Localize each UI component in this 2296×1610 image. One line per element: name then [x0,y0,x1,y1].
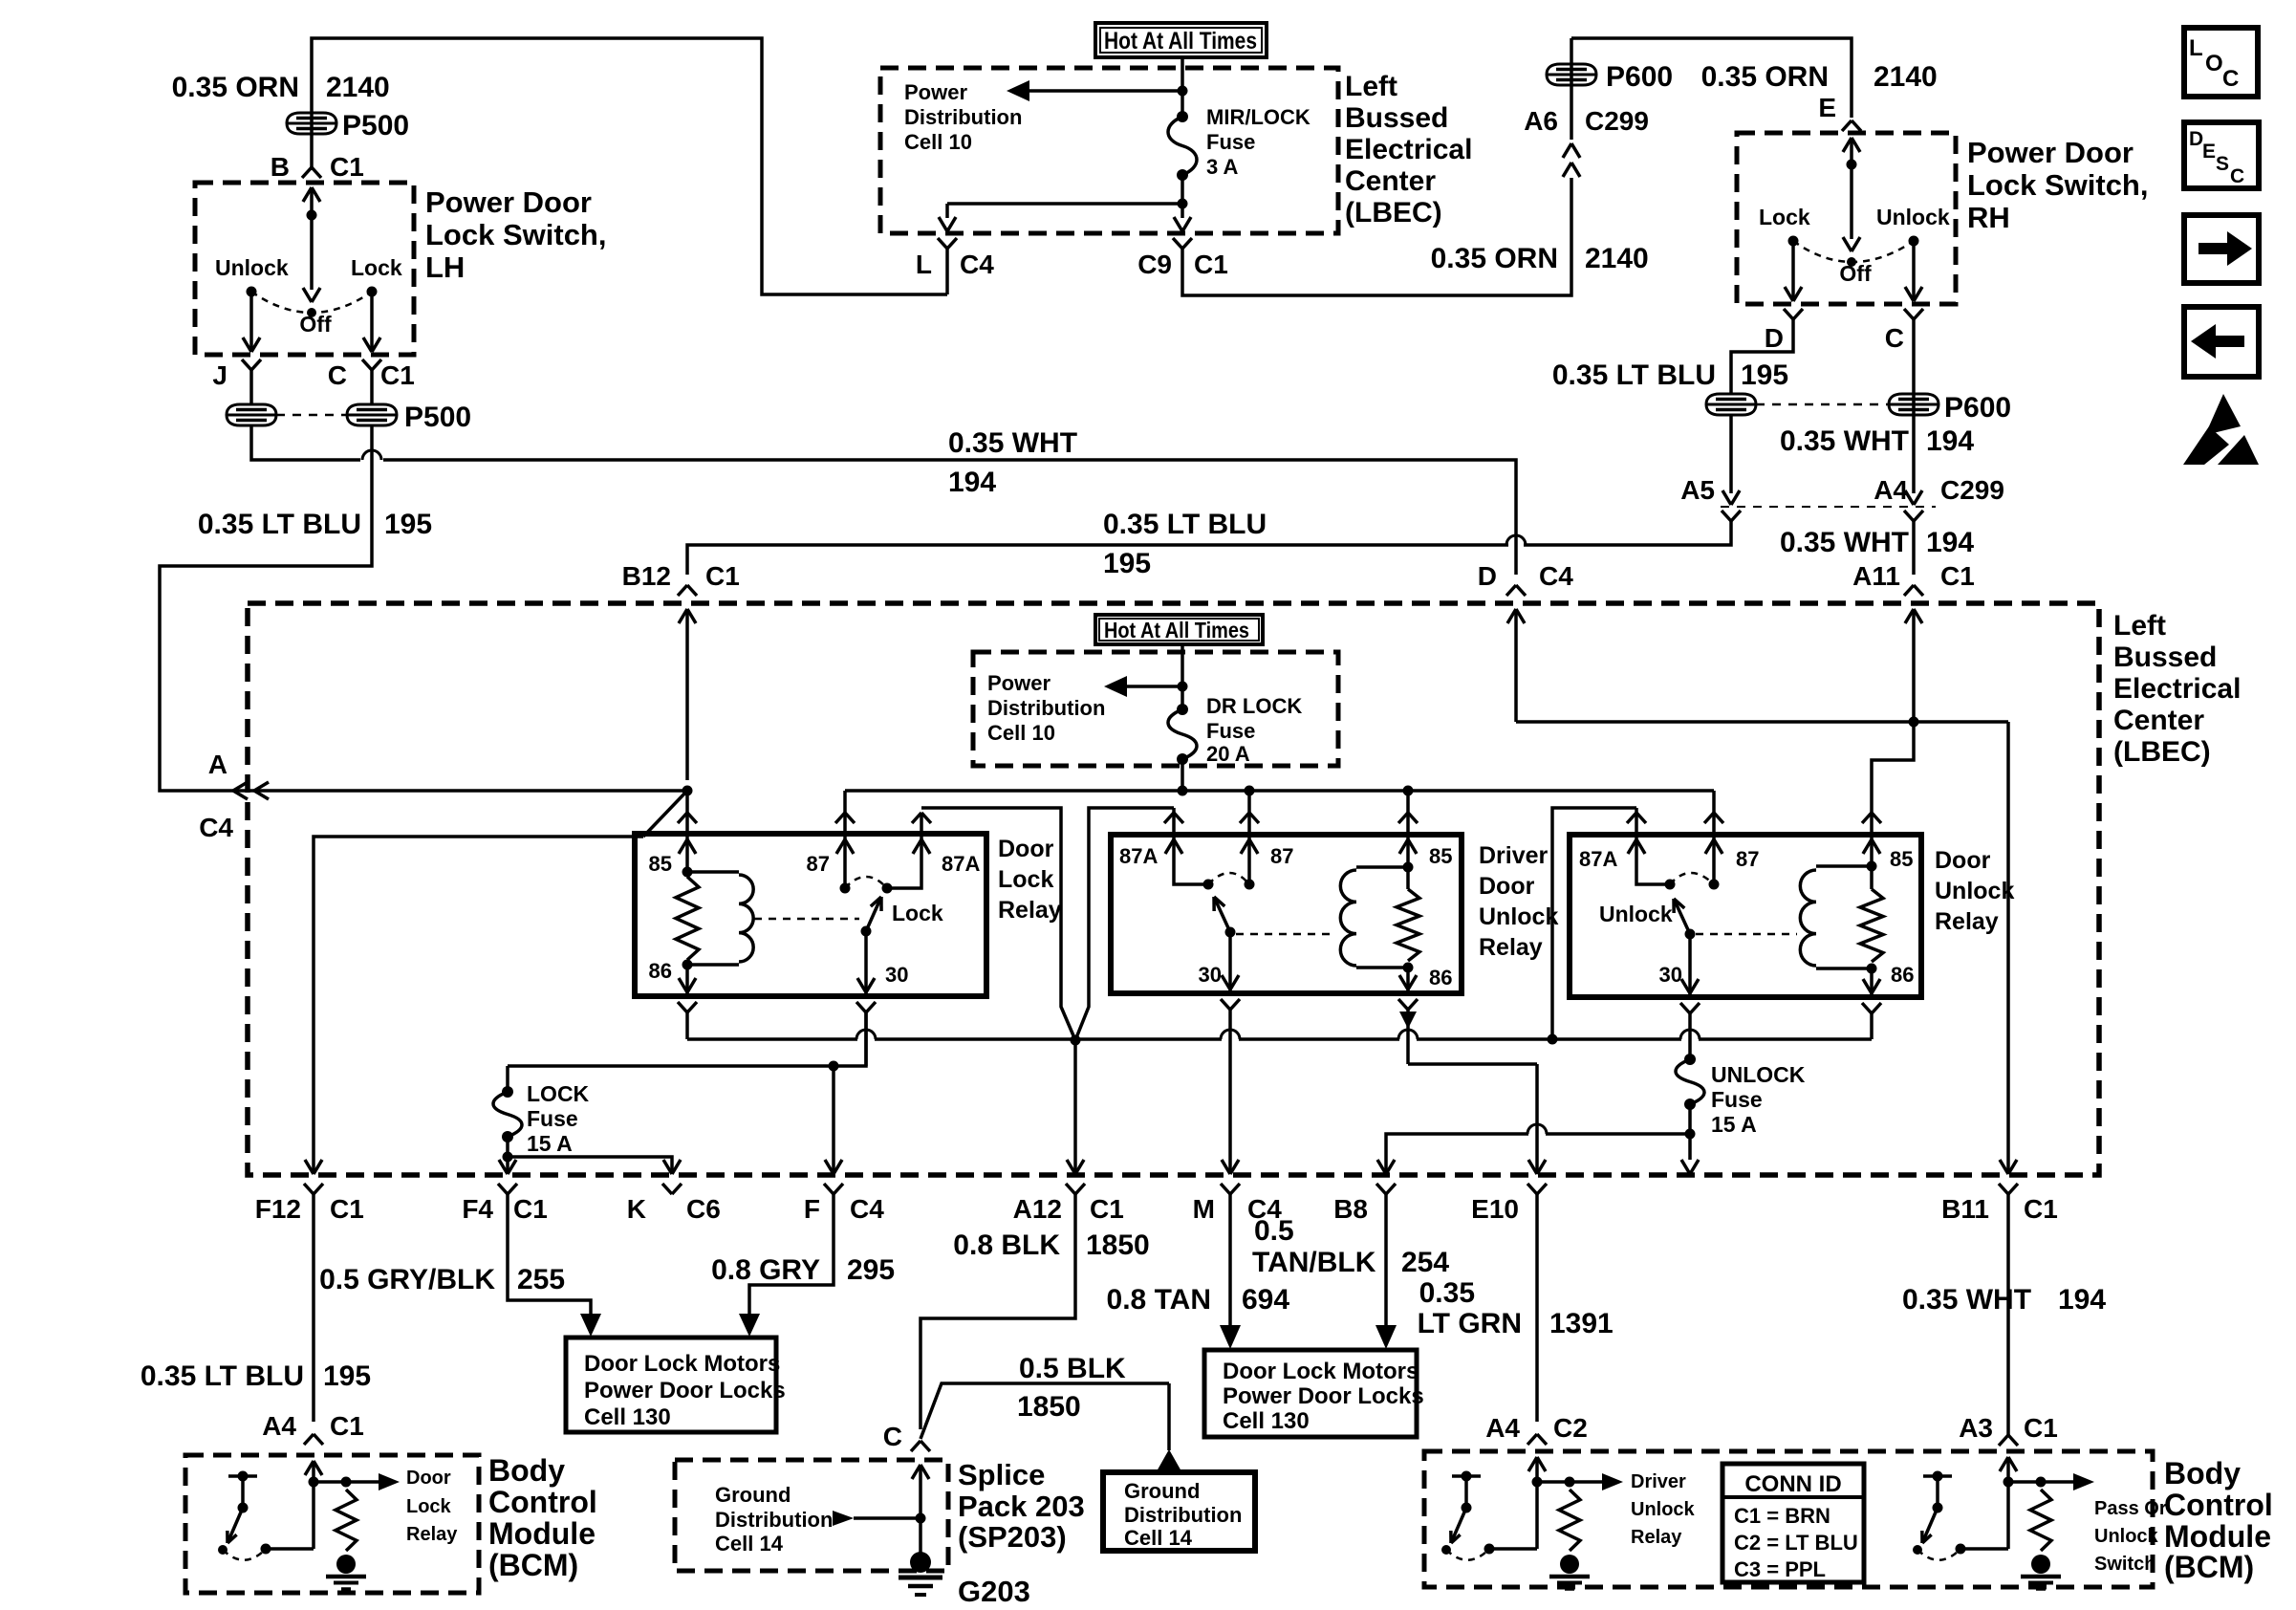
wire label 0.35 WHT 194 (J leg) [948,427,1077,498]
relay1 pin30 output fork [856,1002,876,1066]
svg-text:C4: C4 [960,250,994,279]
connector B / C1 at LH switch [271,152,364,182]
svg-text:Power Door: Power Door [425,185,592,219]
relay2 pin87 lead [1240,791,1259,890]
svg-text:C: C [328,360,347,390]
wire WHT 194 from C to A4 [1912,319,1916,493]
svg-text:30: 30 [885,963,908,987]
svg-text:0.35: 0.35 [1419,1277,1475,1309]
svg-text:Pass Or: Pass Or [2094,1498,2167,1519]
relay3 switch throw arc [1670,873,1714,884]
svg-text:A11: A11 [1852,561,1900,591]
ground distribution cell 14 box (solid) [1103,1472,1255,1551]
svg-text:Ground: Ground [715,1483,791,1507]
svg-text:C1: C1 [1940,561,1975,591]
relay3 coil resistor [1860,889,1883,974]
svg-text:Body: Body [2164,1456,2241,1490]
svg-text:Driver: Driver [1479,842,1549,869]
svg-text:Door: Door [1479,873,1535,900]
svg-text:1850: 1850 [1017,1391,1081,1423]
splice pack SP203 node [912,1465,929,1553]
svg-text:O: O [2205,51,2223,76]
legend DESC box [2184,122,2259,188]
wire WHT 194 from J to D/C4 of LBEC [251,425,1516,575]
svg-text:MIR/LOCK: MIR/LOCK [1206,105,1310,129]
splice P500 (top, circuit 2140) [287,110,409,141]
svg-text:Electrical: Electrical [2113,673,2241,705]
A5 mating fork [1722,511,1741,521]
relay2 switch arm (to 87A) [1214,897,1236,938]
LH switch Lock contact [351,255,402,297]
svg-text:Fuse: Fuse [1711,1087,1763,1112]
svg-text:Module: Module [2164,1519,2271,1554]
svg-text:Unlock: Unlock [1479,903,1558,930]
wire ORN 2140 from C9 to RH switch via A6/C299 [1182,178,1571,295]
label Power Distribution Cell 10 (top box) [904,80,1022,154]
connector A3 / C1 at BCM [1959,1413,2058,1446]
svg-text:C1: C1 [380,360,415,390]
main bus wire (A/C4 to relay coils) [229,786,693,796]
svg-text:M: M [1193,1194,1215,1224]
label Driver Unlock Relay (BCM) [1631,1471,1696,1548]
wire from fuse to outputs L and C9 [947,175,1188,218]
unlock fuse feed from relay3 30 [1676,1054,1704,1140]
svg-text:F: F [804,1194,820,1224]
wire LT GRN 1391 from E10 to BCM A4/C2 [1535,1194,1539,1422]
relay2 pin85 label [1429,844,1452,868]
svg-text:A6: A6 [1524,106,1558,136]
wire label 0.35 LT BLU 195 (BCM leg) [141,1360,371,1392]
body control module (BCM) dashed box (left) [185,1455,479,1593]
relay3 pin85 label [1890,847,1913,871]
feed wire into MIR/LOCK fuse [1180,57,1184,117]
wire label 0.35 LT BLU 195 (D leg) [1552,359,1788,391]
door lock motors box (right) [1204,1350,1424,1437]
svg-text:C6: C6 [686,1194,721,1224]
RH switch common feed arrow [1843,138,1860,170]
connector D / C4 into LBEC [1478,561,1573,722]
RH switch Unlock output wire [1905,241,1922,301]
conn id table [1722,1464,1864,1582]
relay2 coil resistor [1397,889,1419,973]
ground distribution arrow to splice [833,1511,921,1526]
wire label 0.35 ORN 2140 (LH feed) [172,72,390,103]
wire label 0.8 TAN 694 [1107,1284,1290,1316]
svg-text:Off: Off [1839,261,1872,286]
svg-text:1391: 1391 [1549,1308,1614,1339]
relay3 pin30 output fork [1680,1003,1700,1059]
power distribution fuse box (MIR/LOCK) dashed [880,68,1338,233]
svg-text:A3: A3 [1959,1413,1993,1443]
label Ground Distribution Cell 14 (dashed) [715,1483,833,1556]
wire label 0.35 LT GRN 1391 [1418,1277,1614,1339]
svg-text:Unlock: Unlock [1631,1499,1696,1520]
relay3 pin87 label [1736,847,1759,871]
svg-text:3 A: 3 A [1206,155,1239,179]
svg-text:S: S [2216,153,2229,175]
wire LT BLU 195 from D to P600 [1731,319,1793,394]
label Pass Or Unlock Switch (BCM) [2094,1498,2167,1575]
svg-text:87A: 87A [1119,844,1158,868]
svg-text:Door: Door [406,1468,451,1489]
svg-text:86: 86 [1429,966,1452,990]
label Door Lock Relay (BCM) [406,1468,458,1545]
BCM driver unlock relay unit [1441,1457,1623,1589]
svg-text:85: 85 [1429,844,1452,868]
wire GRY 295 from F to door lock motors [739,1194,834,1337]
power distribution arrow (left) top box [1007,80,1188,101]
svg-text:Lock Switch,: Lock Switch, [1967,168,2148,202]
LH switch Lock output wire [363,292,380,352]
wire WHT 194 from B11 to BCM A3 [2006,1194,2010,1435]
svg-text:L: L [2189,35,2203,61]
svg-text:Left: Left [1345,71,1397,102]
svg-text:C4: C4 [850,1194,884,1224]
legend ESD symbol [2183,394,2259,465]
svg-text:Lock Switch,: Lock Switch, [425,218,606,251]
svg-text:87: 87 [807,852,830,876]
svg-text:(LBEC): (LBEC) [2113,736,2211,768]
wire LT BLU 195 from A5 to LBEC B12 [687,521,1731,575]
relay3 label Unlock [1599,902,1673,926]
wire label 0.8 GRY 295 [711,1254,895,1286]
svg-text:0.35 ORN: 0.35 ORN [1431,243,1558,274]
connector M / C4 [1193,1160,1283,1224]
LH switch Unlock output wire [243,292,260,352]
svg-text:Splice: Splice [958,1458,1045,1491]
BCM pass or unlock switch unit [1913,1457,2094,1589]
svg-text:L: L [916,250,932,279]
svg-text:Cell 130: Cell 130 [584,1404,671,1430]
output arrow C9 (top box) [1174,217,1191,231]
wire label 0.5 BLK 1850 (ground leg) [1017,1353,1126,1423]
door lock motors box (left) [566,1338,786,1432]
svg-text:0.5 GRY/BLK: 0.5 GRY/BLK [319,1264,495,1295]
svg-text:J: J [212,360,227,390]
svg-text:F4: F4 [462,1194,493,1224]
connector F / C4 [804,1066,884,1224]
wire label 0.35 LT BLU 195 (C leg) [198,509,432,540]
wire label 0.35 ORN (RH feed) [1701,61,1938,93]
svg-text:B12: B12 [622,561,671,591]
svg-text:C1 = BRN: C1 = BRN [1734,1504,1830,1528]
relay1 switch arm (Lock) [861,897,882,937]
svg-text:E: E [1818,93,1836,122]
svg-text:0.35 WHT: 0.35 WHT [948,427,1077,459]
svg-text:Power Door Locks: Power Door Locks [584,1378,786,1403]
svg-text:295: 295 [847,1254,895,1286]
relay2 pin87A lead [1164,808,1214,890]
svg-text:Driver: Driver [1631,1471,1686,1492]
fuse LOCK 15A symbol [493,1066,834,1163]
LH switch Unlock contact [215,255,289,297]
svg-text:A5: A5 [1680,475,1715,505]
wire label 0.8 BLK 1850 [953,1229,1149,1261]
svg-text:C299: C299 [1585,106,1649,136]
svg-text:0.35 ORN: 0.35 ORN [1701,61,1829,93]
svg-text:B: B [271,152,290,182]
connector F12 / C1 [255,1160,364,1224]
splice P600 (circuit 2140) [1547,38,1673,140]
svg-text:0.35 LT BLU: 0.35 LT BLU [1103,509,1267,540]
svg-text:C4: C4 [1539,561,1573,591]
label Left Bussed Electrical Center LBEC (top) [1345,71,1472,228]
relay1 pin30 lead [857,931,875,996]
svg-text:A4: A4 [1874,475,1908,505]
svg-text:Distribution: Distribution [1124,1503,1242,1527]
svg-text:255: 255 [517,1264,565,1295]
wire from L to LH feed corner [945,249,949,294]
connector L / C4 [916,238,994,279]
label Body Control Module BCM (right) [2164,1456,2273,1584]
connector E at RH switch [1818,93,1861,131]
door unlock relay box [1570,835,1921,997]
svg-text:C: C [883,1422,902,1451]
left bussed electrical center dashed box [248,603,2099,1175]
svg-text:Cell 10: Cell 10 [987,721,1055,745]
svg-text:Relay: Relay [1935,908,1999,935]
svg-text:P600: P600 [1944,392,2011,424]
svg-text:(BCM): (BCM) [488,1548,578,1582]
svg-text:85: 85 [1890,847,1913,871]
svg-text:195: 195 [323,1360,371,1392]
wire label 0.35 WHT 194 (C leg) [1780,425,1974,457]
relay1 87A / relay2 87A merge to A12 [921,808,1174,1174]
driver door unlock relay box [1111,835,1462,993]
wire F12 to BCM A4 [312,1194,315,1422]
RH switch Lock output wire [1785,241,1802,301]
unlock fuse output arrow at LBEC edge [1681,1134,1699,1174]
svg-text:Center: Center [2113,705,2204,736]
svg-text:Lock: Lock [351,255,402,280]
svg-text:Unlock: Unlock [2094,1526,2159,1547]
svg-text:C: C [2230,165,2244,187]
svg-text:Switch: Switch [2094,1554,2155,1575]
svg-text:P500: P500 [404,402,471,433]
relay3 switch arm (Unlock) [1674,899,1696,940]
label Door Lock Relay [998,836,1062,924]
svg-text:Door Lock Motors: Door Lock Motors [584,1351,780,1377]
svg-text:Body: Body [488,1453,565,1488]
svg-text:Module: Module [488,1516,596,1551]
svg-text:2140: 2140 [1874,61,1938,93]
svg-text:694: 694 [1242,1284,1289,1316]
svg-text:87A: 87A [1579,847,1617,871]
svg-text:2140: 2140 [326,72,390,103]
wire DR LOCK fuse to bus [1180,759,1184,791]
wire label 0.35 WHT 194 (B11 leg) [1902,1284,2106,1316]
connector A4 / C2 at BCM [1485,1413,1588,1445]
svg-text:LOCK: LOCK [527,1081,590,1106]
svg-text:D: D [1478,561,1497,591]
svg-text:0.35 LT BLU: 0.35 LT BLU [1552,359,1716,391]
svg-text:Unlock: Unlock [1876,205,1950,229]
door lock relay box [635,834,986,996]
svg-text:87: 87 [1270,844,1293,868]
wire TAN/BLK 254 from B8 to door lock motors [1375,1194,1397,1349]
BCM door lock relay unit [218,1461,400,1589]
label Body Control Module BCM (left) [488,1453,597,1582]
svg-text:C1: C1 [330,1411,364,1441]
connector B8 [1333,1160,1396,1224]
svg-text:Unlock: Unlock [1935,878,2014,904]
svg-text:194: 194 [1926,527,1974,558]
relay3 coil [1800,866,1872,968]
fuse MIR/LOCK 3A symbol [1168,111,1197,181]
svg-text:Cell 130: Cell 130 [1223,1408,1310,1434]
C299 mating dashed line [1721,506,1936,508]
wire ORN to RH switch pin E [1571,38,1852,118]
connector C at splice pack [883,1422,930,1451]
relay1 coil resistor [676,877,699,970]
label Power Distribution Cell 10 (DR LOCK box) [987,671,1105,745]
relay1 pin87 label [807,852,830,876]
legend left-arrow box [2184,307,2259,377]
wire A11 to B11 and relay3 85 [1516,717,2008,1175]
bus diagonal to BCM A4 branch [314,791,687,1174]
svg-text:Off: Off [299,312,332,337]
connector A6 / C299 arrows [1524,106,1649,177]
svg-text:Distribution: Distribution [715,1508,833,1532]
relay1 pin86 lead [649,959,696,996]
svg-text:0.35 LT BLU: 0.35 LT BLU [198,509,361,540]
connector A / C4 into LBEC [199,750,269,842]
relay1 pin87A lead [882,813,932,894]
splice P500 pair (J and C legs) [227,370,471,433]
svg-text:20 A: 20 A [1206,742,1250,766]
svg-text:Cell 14: Cell 14 [1124,1526,1193,1550]
wire label 0.5 TAN/BLK 254 [1252,1215,1449,1278]
svg-text:2140: 2140 [1585,243,1649,274]
svg-text:0.8 BLK: 0.8 BLK [953,1229,1060,1261]
svg-text:30: 30 [1659,963,1682,987]
connector C / C1 (LH switch) [328,359,415,390]
LH switch common feed arrow [303,187,320,221]
body control module (BCM) dashed box (right) [1424,1451,2153,1587]
label MIR/LOCK Fuse 3 A [1206,105,1310,179]
svg-text:Fuse: Fuse [1206,130,1255,154]
label LOCK Fuse 15 A [527,1081,590,1156]
connector A12 / C1 [1013,1160,1124,1224]
svg-text:Relay: Relay [1479,934,1543,961]
svg-text:C1: C1 [1194,250,1228,279]
svg-text:C1: C1 [330,1194,364,1224]
svg-text:Hot At All Times: Hot At All Times [1104,618,1249,642]
svg-text:0.35 WHT: 0.35 WHT [1780,425,1909,457]
A4 mating fork [1904,511,1923,521]
relay1 pin87A label [942,852,980,876]
connector A11 / C1 into LBEC [1852,561,1975,722]
svg-text:194: 194 [2058,1284,2106,1316]
relay3 pin86 lead [1863,963,1914,997]
svg-text:C4: C4 [199,813,233,842]
wire label 0.35 LT BLU 195 (bus) [1103,509,1267,579]
svg-text:C3 = PPL: C3 = PPL [1734,1557,1826,1581]
relay2 pin86 output fork and wire to E10 [1398,999,1537,1174]
svg-text:15 A: 15 A [527,1131,573,1156]
relay1 pin85 label [649,852,672,876]
svg-text:Power Door: Power Door [1967,136,2134,169]
svg-text:Bussed: Bussed [1345,102,1448,134]
relay2 pin87 label [1270,844,1293,868]
svg-text:85: 85 [649,852,672,876]
relay2 pin87A label [1119,844,1158,868]
wire label 0.35 WHT 194 (A11 leg) [1780,527,1974,558]
relay2 pin30 output fork [1221,999,1240,1174]
connector C9 / C1 [1137,238,1228,279]
svg-text:Control: Control [2164,1488,2273,1522]
svg-text:15 A: 15 A [1711,1112,1757,1137]
relay1 coil [687,872,753,965]
wire ORN 2140 from LBEC C9/C1 to LH switch pin B [312,38,947,294]
svg-text:Lock: Lock [998,866,1053,893]
svg-text:Relay: Relay [406,1524,458,1545]
svg-text:C2 = LT BLU: C2 = LT BLU [1734,1531,1858,1555]
svg-text:Relay: Relay [998,897,1062,924]
relay2 coil [1340,867,1408,968]
relay2 pin30 lead [1199,932,1239,993]
svg-text:Center: Center [1345,165,1436,197]
connector F4 / C1 [462,1157,547,1224]
svg-text:C1: C1 [513,1194,548,1224]
svg-text:C9: C9 [1137,250,1172,279]
wire label 0.5 GRY/BLK 255 [319,1264,565,1295]
svg-text:TAN/BLK: TAN/BLK [1252,1247,1376,1278]
svg-text:195: 195 [1741,359,1788,391]
label Off (RH) [1839,261,1872,286]
relay2 coil link dashed [1236,933,1336,936]
relay2 pin86 lead [1399,966,1452,993]
svg-text:Lock: Lock [1759,205,1810,229]
svg-text:Door: Door [1935,847,1991,874]
ground interconnect wire 86 terminals [687,1030,1872,1045]
wire WHT 194 from A4 to LBEC A11 [1912,521,1916,575]
wire TAN 694 from M to door lock motors [1220,1194,1241,1349]
svg-text:Power: Power [904,80,967,104]
wire label 0.35 ORN 2140 (C9 to A6) [1431,243,1649,274]
svg-text:Hot At All Times: Hot At All Times [1104,28,1257,54]
svg-text:D: D [1765,323,1784,353]
svg-text:(LBEC): (LBEC) [1345,197,1442,228]
svg-text:A4: A4 [262,1411,296,1441]
svg-text:C: C [2222,66,2239,92]
connector E10 [1471,1160,1547,1224]
RH switch Unlock contact [1876,205,1950,247]
ground G203 [899,1552,1030,1608]
svg-text:Bussed: Bussed [2113,642,2217,673]
svg-text:C1: C1 [330,152,364,182]
legend LOC box [2184,28,2258,97]
LH switch throw arc [251,292,372,313]
svg-text:Fuse: Fuse [527,1106,578,1131]
svg-text:Cell 14: Cell 14 [715,1532,784,1556]
svg-text:P500: P500 [342,110,409,141]
svg-text:0.8 GRY: 0.8 GRY [711,1254,820,1286]
connector J (LH switch) [212,359,261,390]
svg-text:0.5: 0.5 [1254,1215,1294,1247]
RH switch Lock contact [1759,205,1810,247]
label DR LOCK Fuse 20 A [1206,694,1302,766]
feed wire into DR LOCK fuse [1180,644,1184,709]
svg-text:DR LOCK: DR LOCK [1206,694,1302,718]
connector B12 / C1 into LBEC [622,561,740,780]
label Off (LH) [299,312,332,337]
fuse DR LOCK 20A symbol [1168,704,1197,765]
wire BLK 1850 splice to ground distribution [921,1383,1181,1471]
wire relay3 87A to unlock circuit [1552,808,1636,1039]
relay3 pin87A label [1579,847,1617,871]
svg-text:0.35 WHT: 0.35 WHT [1780,527,1909,558]
